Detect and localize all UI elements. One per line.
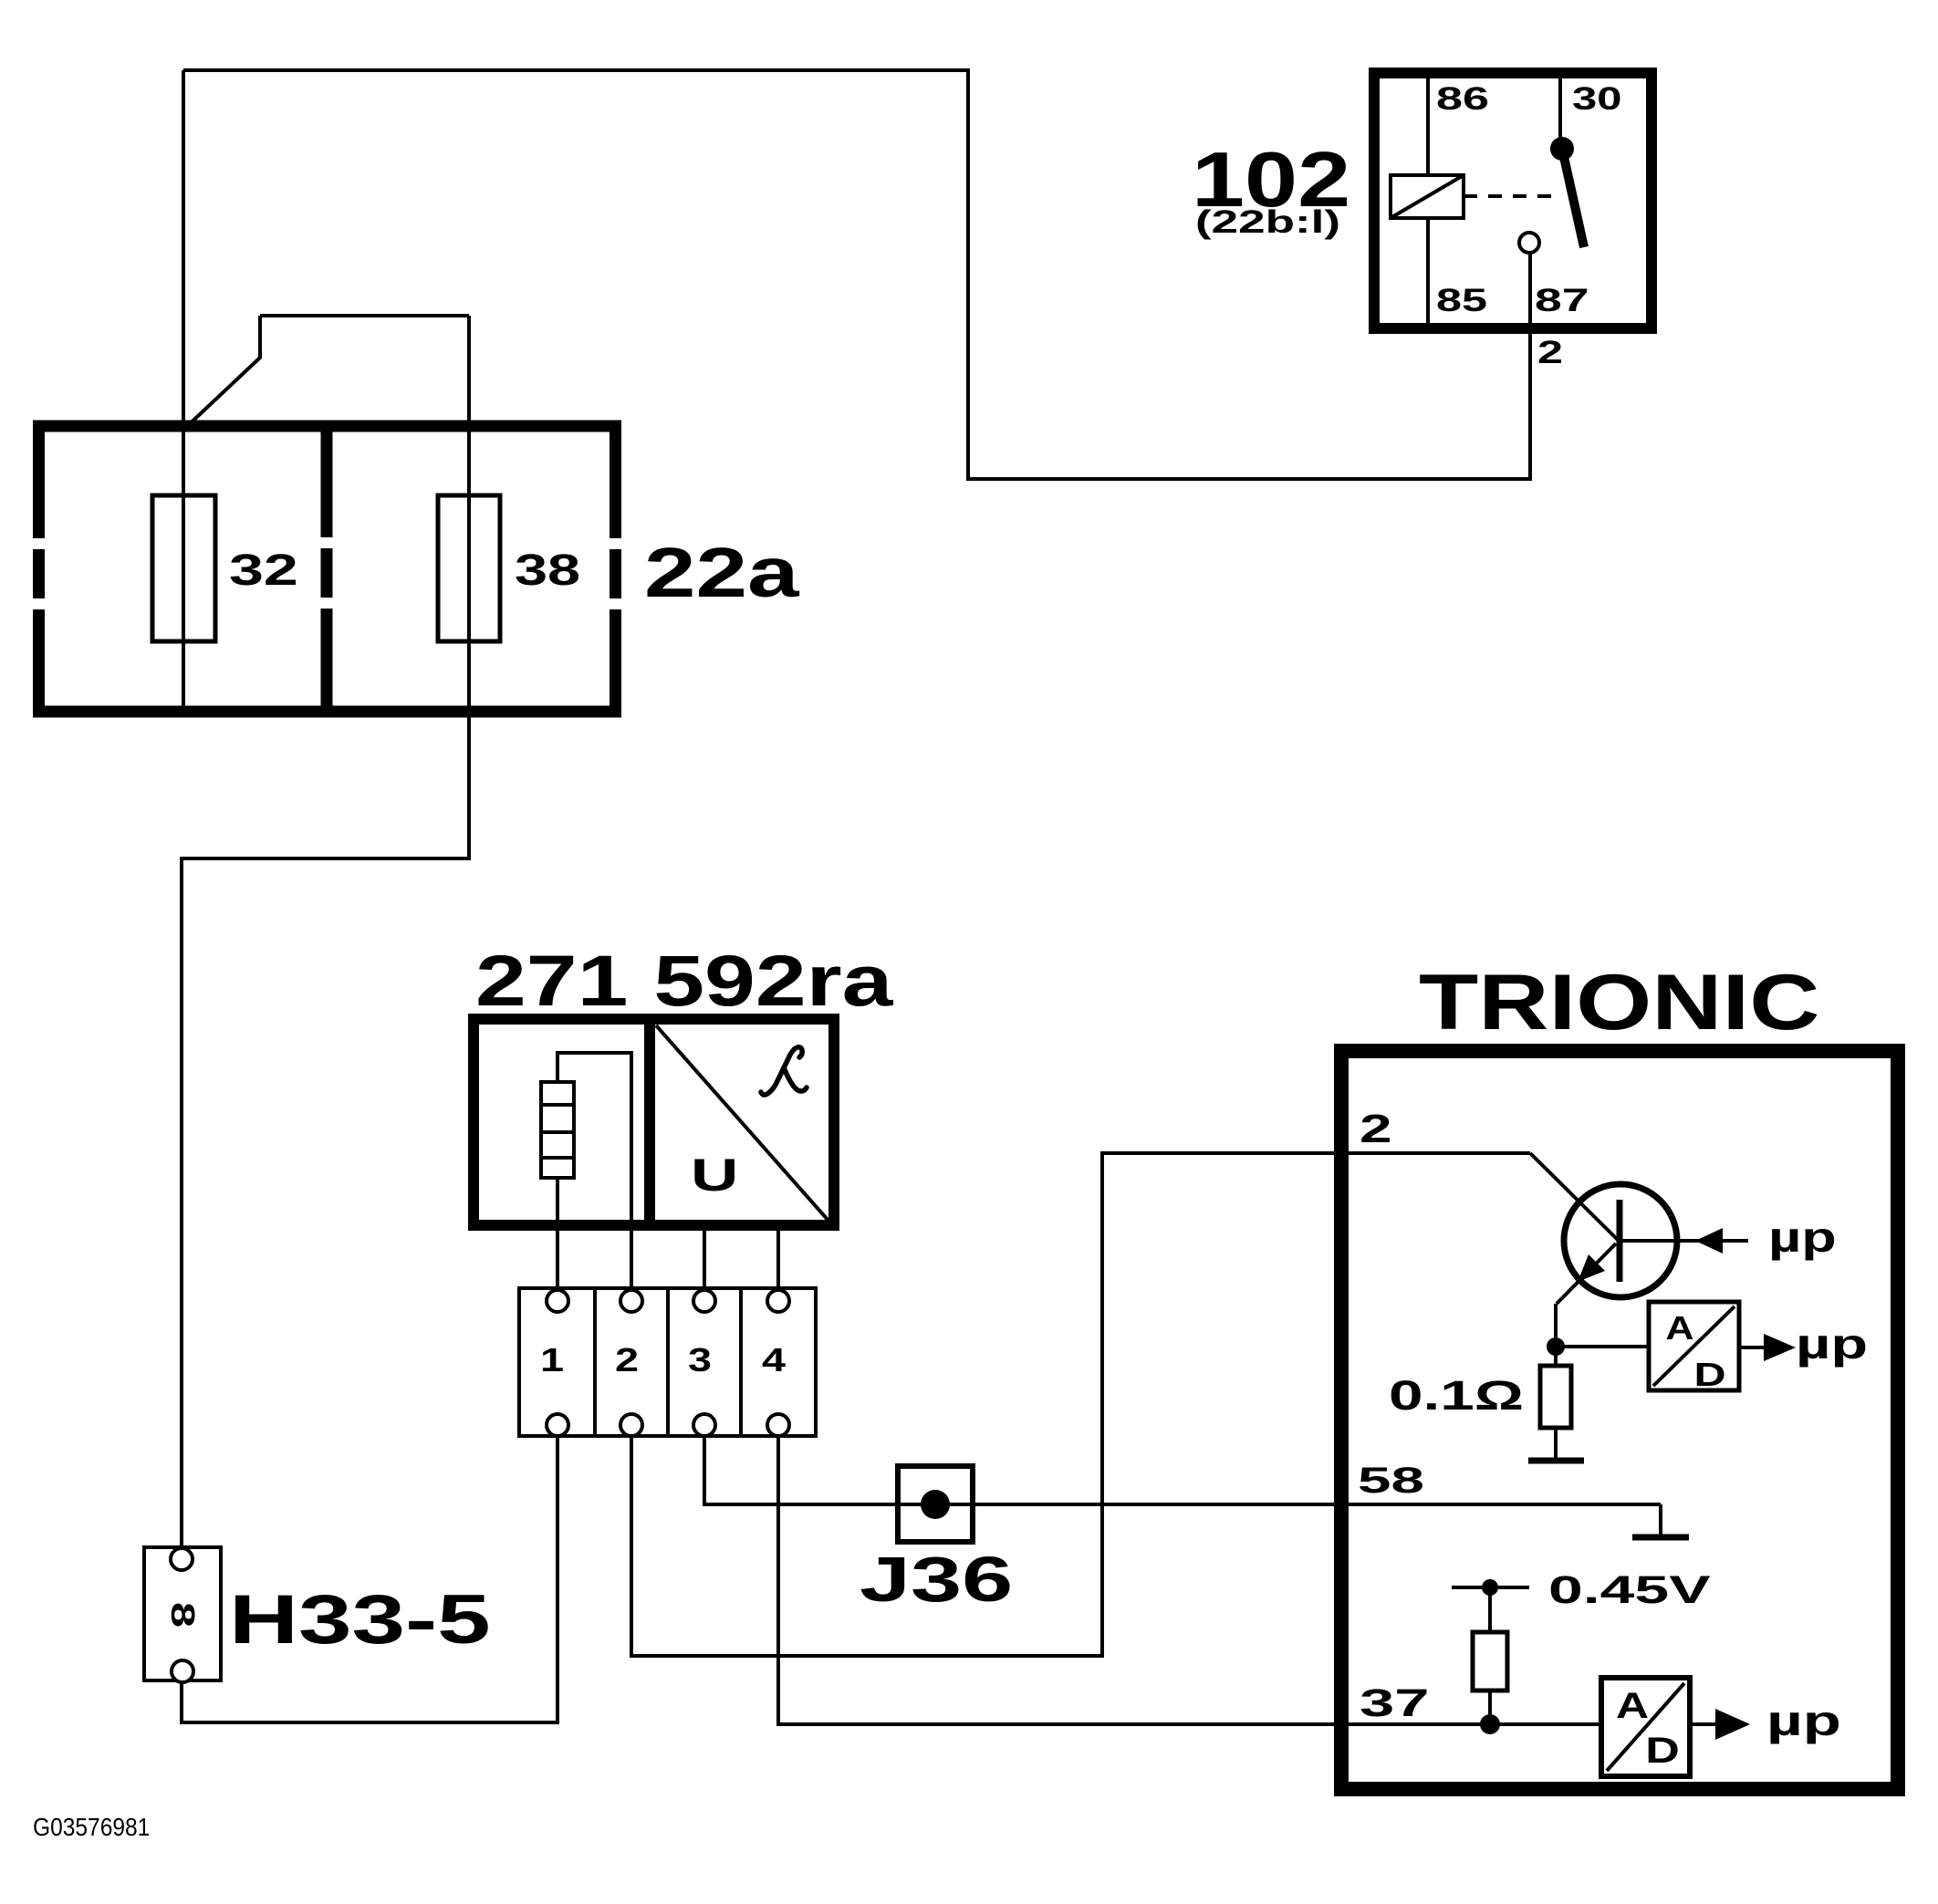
svg-text:1: 1: [540, 1341, 564, 1379]
svg-text:86: 86: [1436, 81, 1489, 117]
svg-text:D: D: [1693, 1357, 1725, 1393]
svg-text:H33-5: H33-5: [229, 1581, 491, 1658]
svg-text:8: 8: [164, 1602, 201, 1628]
svg-text:32: 32: [229, 546, 298, 595]
svg-text:(22b:l): (22b:l): [1195, 203, 1340, 240]
svg-text:TRIONIC: TRIONIC: [1419, 958, 1819, 1046]
svg-text:38: 38: [515, 546, 580, 595]
svg-text:D: D: [1645, 1730, 1680, 1771]
svg-text:A: A: [1616, 1685, 1649, 1726]
svg-text:A: A: [1665, 1310, 1693, 1347]
svg-text:85: 85: [1436, 283, 1487, 318]
svg-text:0.45V: 0.45V: [1548, 1568, 1711, 1612]
svg-text:µp: µp: [1768, 1213, 1837, 1261]
svg-text:2: 2: [615, 1341, 639, 1379]
svg-text:37: 37: [1360, 1681, 1430, 1725]
svg-text:30: 30: [1572, 81, 1621, 117]
svg-text:4: 4: [762, 1341, 786, 1379]
svg-text:271 592ra: 271 592ra: [475, 941, 893, 1021]
svg-text:2: 2: [1537, 335, 1563, 370]
svg-text:U: U: [691, 1150, 738, 1201]
svg-text:G03576981: G03576981: [33, 1812, 150, 1841]
svg-text:J36: J36: [860, 1544, 1013, 1615]
svg-text:22a: 22a: [644, 534, 800, 612]
svg-text:0.1Ω: 0.1Ω: [1389, 1373, 1524, 1419]
svg-text:µp: µp: [1766, 1698, 1841, 1744]
svg-text:2: 2: [1360, 1106, 1391, 1151]
svg-text:µp: µp: [1796, 1321, 1868, 1368]
svg-text:58: 58: [1358, 1460, 1424, 1501]
svg-text:87: 87: [1535, 282, 1589, 317]
svg-text:3: 3: [688, 1341, 712, 1379]
